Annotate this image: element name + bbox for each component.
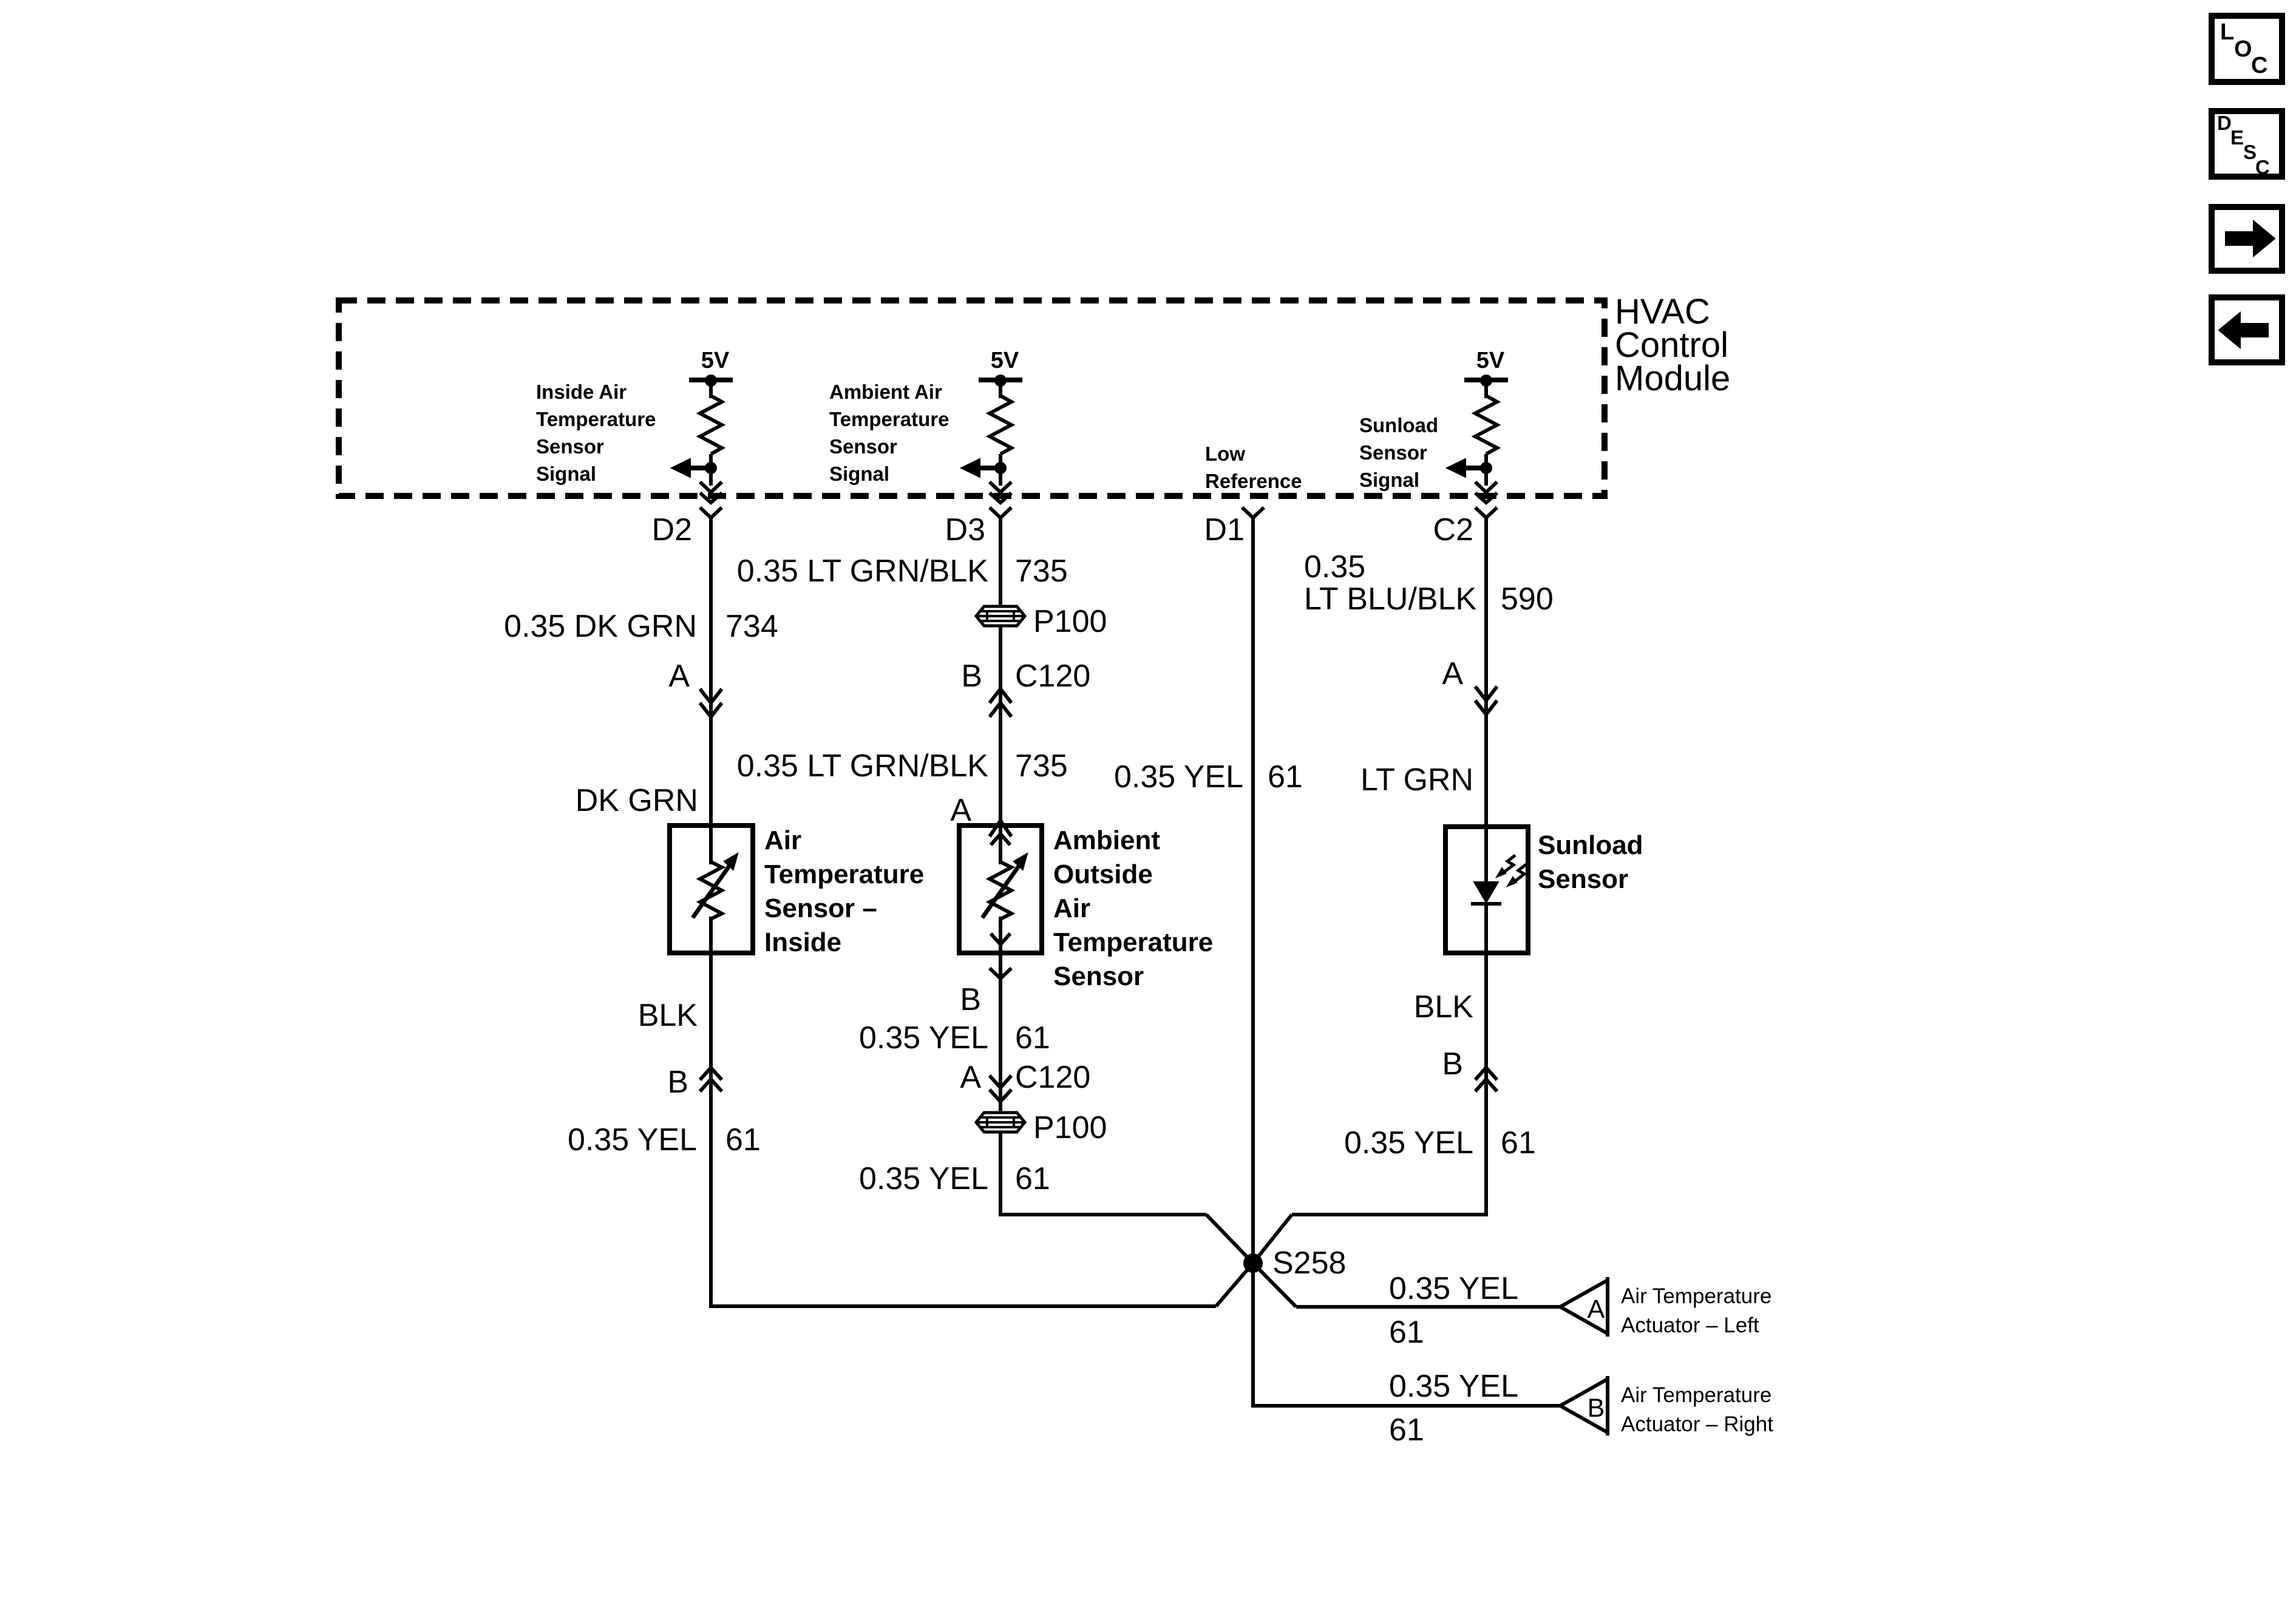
svg-text:S: S — [2243, 141, 2257, 163]
svg-text:5V: 5V — [991, 348, 1019, 373]
svg-text:0.35 YEL: 0.35 YEL — [859, 1020, 988, 1056]
svg-text:D: D — [2217, 112, 2232, 134]
svg-text:Sensor: Sensor — [1359, 441, 1427, 464]
svg-text:C2: C2 — [1433, 512, 1473, 547]
svg-text:0.35 YEL: 0.35 YEL — [1389, 1271, 1518, 1306]
svg-text:Inside Air: Inside Air — [536, 381, 627, 403]
svg-text:P100: P100 — [1033, 1110, 1107, 1145]
svg-text:O: O — [2234, 36, 2252, 62]
svg-text:Reference: Reference — [1205, 470, 1302, 492]
svg-text:Ambient Air: Ambient Air — [829, 381, 942, 403]
svg-text:D1: D1 — [1204, 512, 1245, 547]
svg-text:C120: C120 — [1015, 659, 1090, 694]
svg-text:Sensor –: Sensor – — [764, 893, 877, 923]
svg-text:Outside: Outside — [1053, 859, 1153, 889]
svg-text:P100: P100 — [1033, 604, 1107, 639]
svg-text:0.35 YEL: 0.35 YEL — [1344, 1125, 1473, 1161]
svg-text:Temperature: Temperature — [536, 408, 656, 430]
svg-text:61: 61 — [1389, 1315, 1424, 1350]
svg-text:0.35 LT GRN/BLK: 0.35 LT GRN/BLK — [737, 554, 989, 589]
svg-text:Module: Module — [1615, 359, 1730, 398]
svg-text:A: A — [1442, 656, 1463, 691]
svg-text:5V: 5V — [701, 348, 730, 373]
svg-text:Sensor: Sensor — [536, 435, 604, 458]
svg-text:Actuator – Left: Actuator – Left — [1621, 1314, 1759, 1337]
svg-text:B: B — [1442, 1046, 1463, 1082]
svg-text:Signal: Signal — [536, 463, 596, 485]
svg-text:C120: C120 — [1015, 1060, 1090, 1095]
svg-text:C: C — [2251, 53, 2267, 78]
svg-text:Sensor: Sensor — [1538, 864, 1628, 894]
svg-text:A: A — [668, 659, 690, 694]
svg-text:B: B — [667, 1065, 688, 1100]
svg-text:735: 735 — [1015, 748, 1068, 784]
svg-text:0.35 YEL: 0.35 YEL — [859, 1161, 988, 1196]
svg-text:D3: D3 — [945, 512, 985, 547]
svg-text:Ambient: Ambient — [1053, 825, 1160, 855]
svg-text:734: 734 — [725, 609, 778, 644]
svg-text:61: 61 — [1268, 759, 1303, 795]
svg-text:0.35 YEL: 0.35 YEL — [1114, 759, 1243, 795]
svg-text:Signal: Signal — [829, 463, 889, 485]
svg-text:B: B — [1588, 1394, 1605, 1423]
svg-text:BLK: BLK — [638, 998, 698, 1033]
svg-text:A: A — [950, 793, 971, 828]
svg-text:DK GRN: DK GRN — [576, 783, 698, 818]
svg-text:S258: S258 — [1272, 1246, 1346, 1281]
svg-text:61: 61 — [1015, 1020, 1050, 1056]
svg-text:590: 590 — [1501, 581, 1554, 617]
svg-text:61: 61 — [1501, 1125, 1536, 1161]
svg-text:61: 61 — [1389, 1412, 1424, 1448]
svg-text:B: B — [960, 982, 981, 1017]
svg-text:Air: Air — [1053, 893, 1090, 923]
svg-text:L: L — [2220, 19, 2234, 45]
svg-text:Signal: Signal — [1359, 469, 1419, 491]
svg-text:Sunload: Sunload — [1538, 830, 1643, 860]
svg-text:Temperature: Temperature — [1053, 927, 1213, 957]
svg-text:Inside: Inside — [764, 927, 841, 957]
svg-text:C: C — [2255, 156, 2270, 178]
svg-text:D2: D2 — [652, 512, 692, 547]
svg-text:A: A — [1588, 1295, 1605, 1324]
svg-text:61: 61 — [725, 1122, 761, 1158]
svg-text:Air Temperature: Air Temperature — [1621, 1284, 1771, 1308]
svg-text:Sensor: Sensor — [1053, 961, 1144, 991]
svg-text:0.35 YEL: 0.35 YEL — [568, 1122, 697, 1158]
svg-text:0.35 YEL: 0.35 YEL — [1389, 1369, 1518, 1404]
svg-text:Temperature: Temperature — [764, 859, 924, 889]
svg-text:BLK: BLK — [1414, 989, 1474, 1025]
svg-text:E: E — [2230, 126, 2244, 149]
svg-text:Low: Low — [1205, 442, 1245, 465]
svg-text:Temperature: Temperature — [829, 408, 949, 430]
svg-text:A: A — [960, 1060, 981, 1095]
svg-text:LT GRN: LT GRN — [1360, 762, 1473, 798]
svg-text:Air Temperature: Air Temperature — [1621, 1383, 1771, 1407]
svg-text:0.35 LT GRN/BLK: 0.35 LT GRN/BLK — [737, 748, 989, 784]
svg-text:735: 735 — [1015, 554, 1068, 589]
svg-text:5V: 5V — [1476, 348, 1505, 373]
svg-text:B: B — [961, 659, 982, 694]
svg-text:Sunload: Sunload — [1359, 414, 1438, 436]
svg-text:0.35: 0.35 — [1304, 549, 1365, 585]
svg-text:61: 61 — [1015, 1161, 1050, 1196]
svg-text:LT BLU/BLK: LT BLU/BLK — [1304, 581, 1477, 617]
svg-text:0.35 DK GRN: 0.35 DK GRN — [504, 609, 697, 644]
svg-text:Actuator – Right: Actuator – Right — [1621, 1412, 1773, 1436]
svg-text:Air: Air — [764, 825, 801, 855]
svg-text:Sensor: Sensor — [829, 435, 897, 458]
